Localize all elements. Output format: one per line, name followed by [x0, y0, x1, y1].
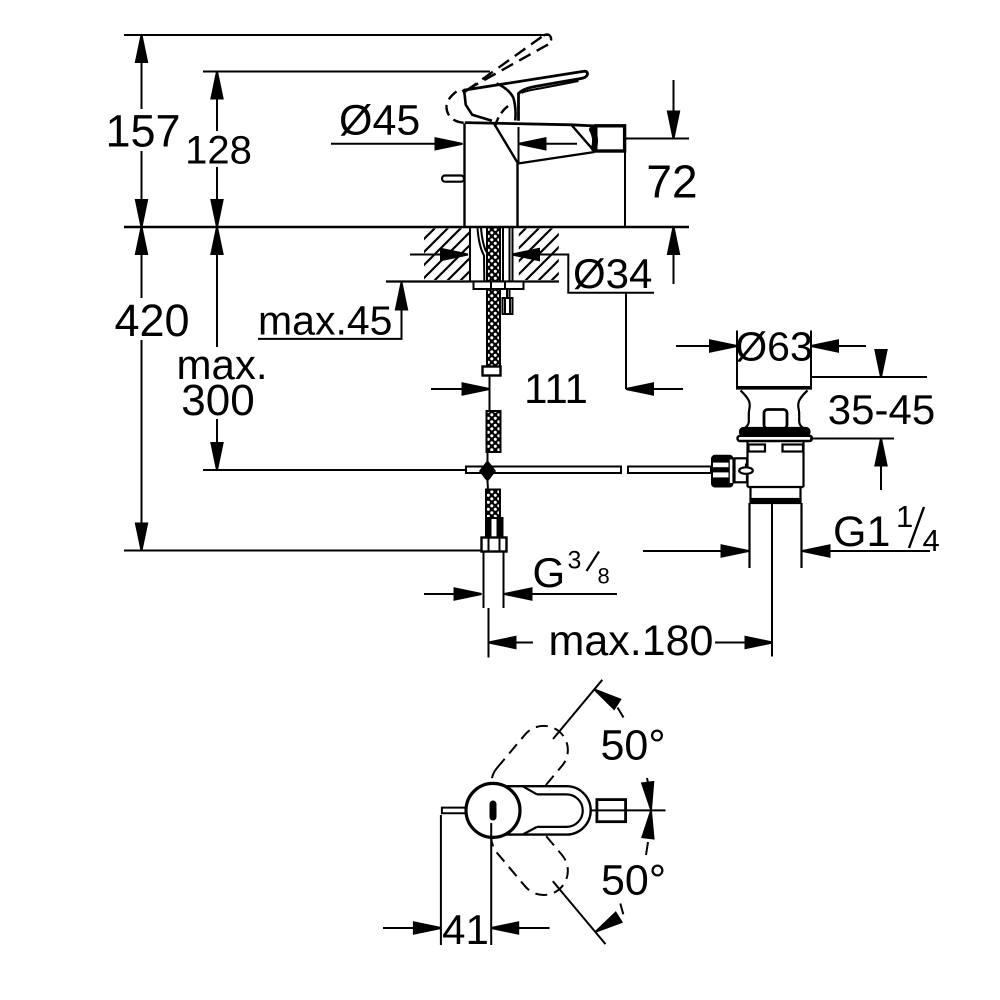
pop-up rod left segment: [466, 467, 621, 474]
svg-text:35-45: 35-45: [828, 386, 935, 433]
angle leg upper: [553, 680, 602, 739]
rod junction ball: [479, 460, 496, 482]
aerator crescent: [592, 130, 595, 149]
plan handle capsule: [469, 786, 591, 834]
deck hatch left block: [424, 229, 470, 281]
label 420: [112, 295, 192, 346]
SECTION: deck and mounting: [424, 227, 559, 608]
angle arrow upper at centerline: [647, 778, 650, 790]
pop-up rod guide trumpet: [478, 228, 485, 282]
dimension max.180 right arrow: [715, 642, 773, 644]
dimension G3/8 left arrow: [424, 593, 456, 595]
hose fitting stem: [506, 289, 508, 298]
dimension G1 1/4 right arrow and underline: [828, 550, 930, 552]
label 157: [105, 106, 180, 157]
svg-text:max.180: max.180: [549, 617, 714, 665]
plan pivot bar: [490, 804, 497, 817]
dimension 157 vertical line: [141, 35, 143, 227]
dashed handle raised position: top edge: [466, 36, 544, 92]
mounting flange nut below deck: [474, 282, 524, 290]
label 41: [442, 906, 489, 953]
svg-text:1: 1: [896, 499, 913, 534]
dashed handle raised position: tip arc: [544, 34, 552, 45]
max.180 left extension line: [488, 608, 490, 658]
svg-text:G1: G1: [833, 508, 890, 556]
dashed handle raised position: bottom edge: [469, 45, 548, 89]
valve collar heavy band: [751, 499, 801, 503]
dimension max.45 leader and arrow: [258, 283, 402, 339]
vertical leader from Ø34 label down to 111 line: [625, 293, 627, 389]
faucet body left edge: [463, 124, 465, 228]
lever tip and underside into neck right edge: [519, 71, 588, 121]
dimension Ø63 left arrow: [676, 345, 712, 347]
dimension 111 left arrow: [431, 388, 463, 390]
hose fitting block: [503, 298, 513, 314]
svg-text:50°: 50°: [601, 722, 666, 770]
label max. 300: [172, 341, 270, 425]
pop-up rod right segment: [628, 467, 711, 474]
Ø45 extension line right: [518, 127, 520, 163]
dimension 72 lower arrow: [673, 227, 675, 284]
metal washer: [738, 436, 813, 441]
svg-text:Ø63: Ø63: [735, 324, 813, 370]
valve cone left side: [741, 391, 750, 428]
side port knurled knob: [711, 455, 734, 488]
valve lower collar: [748, 486, 804, 488]
svg-text:157: 157: [105, 106, 180, 157]
dimension 35-45 bottom arrow: [880, 439, 882, 491]
dimension 41 left arrow: [383, 927, 415, 929]
braided hose lower segment: [486, 490, 500, 519]
flexible supply hose upper (braided): [487, 228, 500, 368]
label G3/8: [533, 547, 610, 597]
deck bottom line with max.45 reference: [386, 280, 559, 282]
spout left internal diagonal: [494, 124, 518, 164]
41 extension line left: [440, 815, 442, 945]
svg-text:300: 300: [181, 376, 254, 425]
plan handle chamfer top: [523, 786, 537, 794]
tail pipe centerline: [771, 503, 773, 657]
plan body circle: [466, 783, 520, 837]
dimension line Ø45 right: [544, 143, 577, 145]
72 reference line at outlet axis: [626, 138, 690, 140]
svg-text:41: 41: [442, 906, 489, 953]
dashed handle raised position: base arc: [446, 92, 467, 124]
label G1 1/4: [833, 499, 940, 558]
35-45 bottom reference line: [810, 438, 894, 440]
dimension 72 upper arrow: [673, 80, 675, 139]
dimension G1 1/4 left arrow: [643, 550, 722, 552]
dashed handle raised position: base right edge: [494, 106, 508, 130]
plan pop-up rod: [442, 808, 466, 814]
handle base corner tick: [463, 89, 465, 93]
svg-text:111: 111: [524, 365, 588, 412]
svg-text:Ø45: Ø45: [339, 97, 420, 145]
SECTION: faucet front view: [442, 34, 625, 227]
svg-text:4: 4: [923, 523, 940, 558]
svg-text:8: 8: [598, 564, 610, 589]
dimension 111 right arrow: [653, 388, 683, 390]
valve cone right side: [798, 391, 807, 428]
dimension Ø63 right arrow: [836, 345, 866, 347]
shank tube lines right: [502, 228, 504, 282]
pop-up rod knob front view: [442, 176, 464, 182]
dashed handle capsule rotated down 50: [481, 803, 577, 905]
spout face diagonal: [572, 125, 595, 152]
valve stem knob: [764, 410, 787, 429]
extension line top (157 ref, handle raised tip): [124, 34, 549, 36]
deck top line: [124, 226, 689, 228]
set screw tick: [745, 464, 747, 468]
SECTION: horizontal pop-up rod: [466, 460, 711, 482]
vertical line below outlet: [624, 152, 626, 228]
valve body walls: [746, 442, 748, 488]
svg-text:Ø34: Ø34: [573, 250, 652, 297]
dimension 35-45 top arrow: [880, 352, 882, 377]
angle arrow lower at centerline: [646, 842, 648, 855]
dimension G3/8 right arrow and underline: [530, 593, 617, 595]
extension line 128 ref (handle tip level): [203, 71, 490, 73]
dimension 128 vertical line: [216, 72, 218, 228]
spout bottom edge: [518, 152, 595, 164]
dimension 41 right arrow: [516, 927, 550, 929]
dimension max.300 vertical line: [216, 227, 218, 470]
extension line max.300 bottom (rod level): [203, 469, 466, 471]
faucet body top edge: [465, 123, 596, 126]
lever underside second line: [522, 81, 579, 93]
SECTION: bottom plan view: [383, 680, 666, 945]
set screw ellipse: [739, 467, 753, 474]
faucet body right edge below spout: [516, 164, 518, 228]
plan handle inner capsule: [537, 794, 583, 827]
SECTION: drain valve labels: [735, 324, 940, 559]
hose end cap: [483, 367, 501, 376]
side port stem: [735, 458, 748, 482]
svg-text:72: 72: [646, 156, 697, 208]
handle base outline: [464, 91, 492, 121]
spout outlet block: [596, 126, 625, 151]
hose to valve connector block: [486, 518, 503, 538]
dimension line Ø34 right with leader to label: [512, 255, 654, 293]
svg-text:max.45: max.45: [258, 298, 392, 344]
pop-up rod thin segment: [489, 376, 491, 412]
35-45 top reference line: [811, 376, 927, 378]
angle leg lower: [553, 881, 606, 944]
tail pipe walls: [748, 503, 750, 568]
plan handle chamfer bottom: [523, 827, 537, 835]
plan outlet square: [597, 800, 626, 822]
SECTION: bottom view labels: [442, 722, 666, 954]
G3/8 slash: [587, 552, 600, 572]
rod junction connector lines: [487, 452, 489, 461]
dashed handle capsule rotated up 50: [481, 716, 577, 818]
SECTION: text labels left column: [105, 97, 713, 666]
valve cap heavy bottom edge: [736, 386, 812, 390]
SECTION: drain valve dimensions: [643, 331, 930, 557]
dimension 420 vertical line: [141, 227, 143, 551]
angle arrow upper at leg: [591, 685, 620, 709]
braided hose middle segment: [487, 411, 501, 452]
dimension line Ø45 left: [331, 143, 437, 145]
dimension line Ø34 left: [410, 254, 441, 256]
plan centerline: [591, 809, 666, 811]
svg-text:420: 420: [114, 295, 189, 346]
lever top edge: [464, 71, 585, 90]
dimension max.180 left arrow: [489, 642, 534, 644]
svg-text:128: 128: [185, 129, 252, 173]
lever neck front curve: [497, 83, 516, 120]
svg-text:G: G: [533, 549, 566, 596]
svg-text:3: 3: [568, 547, 582, 575]
mounting hole left wall: [469, 227, 471, 282]
SECTION: drain valve: [711, 388, 812, 657]
valve body slots: [749, 445, 766, 452]
G1 1/4 slash: [909, 507, 924, 548]
extension line 420 bottom (hose end level): [124, 550, 481, 552]
G3/8 supply pipe: [483, 552, 485, 609]
deck hatch right block: [519, 229, 559, 281]
rubber washer (filled): [740, 428, 810, 436]
angle arrow lower at leg: [593, 913, 622, 937]
label 128: [182, 129, 255, 173]
Ø63 extension lines: [736, 331, 738, 388]
connection nut: [482, 538, 507, 552]
svg-text:50°: 50°: [601, 857, 666, 905]
41 extension line right: [490, 823, 492, 945]
